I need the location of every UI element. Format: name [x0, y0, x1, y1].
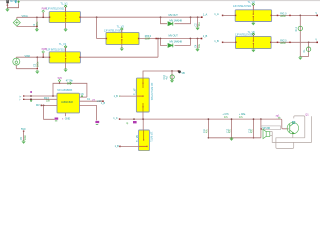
wire V2 top: [15, 56, 17, 59]
wire rail out U4: [272, 14, 317, 16]
pin end rail1: [201, 16, 203, 18]
filter block U1: [49, 12, 80, 23]
speaker SP1 symbol: [266, 132, 270, 137]
wire 1_A to U4: [223, 14, 236, 16]
resistor RX2 inline: [277, 42, 279, 44]
wire V1 top to rail: [16, 17, 18, 19]
svg-text:i-: i-: [20, 100, 21, 102]
IC U6 LM61: [57, 93, 80, 113]
wire between U7 and U8: [142, 112, 144, 119]
filter block U7 (vertical): [136, 78, 149, 112]
wire speaker lower stub: [270, 134, 272, 136]
node split D2: [160, 38, 162, 40]
pin end + node dot: [178, 70, 180, 72]
svg-text:MV OUT: MV OUT: [169, 35, 179, 38]
wire collector bottom return: [276, 138, 305, 149]
pin of J1: [7, 4, 9, 6]
IC left pin wires: [24, 95, 58, 97]
wire emitter stub: [292, 134, 294, 138]
svg-text:DL: DL: [303, 49, 306, 53]
ground under U2: [64, 70, 68, 73]
wire rail2 out U5: [271, 41, 317, 43]
wire U5 bottom gnd: [252, 48, 254, 51]
ground under C3: [35, 71, 39, 74]
svg-text:1_B: 1_B: [101, 102, 105, 105]
wire emitter net: [272, 116, 311, 142]
svg-text:10u: 10u: [198, 43, 201, 48]
wire to AGND flag: [44, 105, 55, 119]
wire D1 branch: [161, 17, 168, 24]
svg-text:RL1: RL1: [295, 27, 298, 32]
wire TL_V1 stub: [64, 5, 66, 7]
rail net VIN_A: [17, 16, 49, 18]
filter block U8 (vertical): [139, 130, 150, 151]
svg-text:220R: 220R: [145, 38, 151, 41]
IC right pin3 wire: [80, 104, 97, 106]
pin end rail2 right: [316, 42, 318, 44]
svg-text:TL_V8: TL_V8: [136, 135, 139, 142]
capacitor ladder C11: [207, 119, 209, 138]
svg-text:1JF INTELSYS01: 1JF INTELSYS01: [46, 8, 65, 11]
svg-text:100n: 100n: [24, 134, 27, 140]
junction U7U8: [142, 118, 144, 120]
svg-text:VB: VB: [181, 71, 185, 75]
ground under C9: [22, 141, 26, 144]
svg-text:VIN A: VIN A: [22, 14, 29, 18]
ground under U1: [64, 29, 68, 32]
ground under C4: [195, 49, 199, 52]
svg-text:MV 1N4148: MV 1N4148: [170, 40, 183, 43]
svg-text:220R: 220R: [280, 42, 286, 45]
svg-text:MV LM61BIM3: MV LM61BIM3: [57, 89, 72, 92]
svg-text:10u: 10u: [198, 22, 201, 27]
filter block U3: [106, 32, 139, 44]
svg-text:i+: i+: [20, 96, 22, 98]
capacitor C3: [36, 57, 38, 69]
svg-text:1JF INTELSYS01: 1JF INTELSYS01: [46, 48, 65, 51]
connector J1: [6, 0, 9, 3]
wire 5V rail: [53, 83, 87, 97]
testpoint label: [133, 118, 135, 120]
resistor RX1 inline: [277, 15, 279, 17]
svg-text:1_A: 1_A: [214, 12, 219, 16]
filter block U4: [235, 10, 271, 22]
diode DL vertical: [308, 42, 310, 56]
IC right pin1 wire: [80, 96, 87, 98]
svg-text:TL_V7: TL_V7: [134, 88, 137, 95]
junction rail2 down: [157, 38, 159, 40]
svg-text:1_A: 1_A: [203, 13, 208, 17]
ground under J1: [5, 9, 9, 12]
wire base path: [276, 119, 289, 129]
junction R load top: [299, 15, 301, 17]
diode D2: [168, 44, 172, 48]
wire U7 top: [143, 71, 178, 78]
speaker SP1 box label: [261, 126, 280, 130]
svg-text:TL_V3: TL_V3: [117, 25, 125, 29]
pin end rail2: [201, 38, 203, 40]
svg-text:1JF INTELSYS01: 1JF INTELSYS01: [104, 30, 123, 33]
transistor Q1: [287, 122, 298, 133]
ground ladder: [229, 138, 233, 141]
svg-text:1JF INTEL: 1JF INTEL: [150, 132, 153, 143]
ground right column: [298, 57, 302, 60]
top border line: [0, 0, 320, 1]
svg-text:1JF INTELSYS01: 1JF INTELSYS01: [235, 34, 254, 37]
wire branch down to U3: [96, 17, 98, 38]
svg-text:TL_V4: TL_V4: [248, 0, 256, 4]
svg-text:x: x: [62, 117, 64, 120]
capacitor C1: [36, 17, 38, 29]
capacitor C2 at rail1 end: [197, 16, 199, 18]
ground under U5: [251, 50, 255, 53]
wire collector top: [294, 116, 305, 138]
capacitor C4: [197, 38, 199, 40]
wire D2 branch: [160, 39, 167, 46]
wire U2 out to join rail2: [80, 56, 158, 58]
svg-text:GND: GND: [65, 117, 71, 120]
svg-text:xq1: xq1: [276, 114, 281, 118]
svg-text:1_B: 1_B: [203, 34, 208, 38]
svg-text:Q1: Q1: [305, 113, 309, 117]
wire speaker top terminal: [270, 131, 272, 133]
capacitor ladder C13: [253, 119, 255, 138]
svg-text:100n: 100n: [37, 61, 40, 67]
voltage source V2 (circle): [13, 58, 20, 65]
svg-text:C2: C2: [194, 23, 197, 27]
node split D1: [160, 16, 162, 18]
capacitor C9: [23, 131, 25, 141]
ground under U3: [120, 49, 124, 52]
wire DL to ground: [300, 56, 308, 58]
wire U7 left pin: [120, 95, 137, 97]
wire 1_B to U5: [223, 41, 236, 43]
voltage source V1 (diamond): [13, 19, 20, 26]
filter block U5: [236, 36, 272, 48]
wire ladder bottom: [208, 137, 261, 139]
wire U3 bottom gnd: [121, 45, 123, 49]
svg-text:LM61CIM3: LM61CIM3: [61, 101, 73, 104]
pin header mark: [15, 0, 16, 3]
svg-text:V: V: [315, 12, 317, 15]
IC right pin2 wire VTEMP: [80, 100, 103, 102]
node junction at C1 top: [36, 16, 38, 18]
junction to U3 branch: [96, 16, 98, 18]
svg-text:10k: 10k: [46, 100, 51, 103]
svg-text:1_C: 1_C: [113, 117, 118, 120]
wire bottom rail: [120, 118, 277, 120]
IC bottom pin: [65, 113, 67, 116]
svg-text:VIN2: VIN2: [25, 54, 31, 58]
ground under C2: [196, 28, 200, 31]
wire V1 bottom: [16, 25, 18, 27]
power flag +V: [17, 1, 20, 3]
svg-text:C9: C9: [20, 136, 23, 140]
svg-text:1_B: 1_B: [115, 145, 120, 148]
capacitor ladder C12: [231, 119, 233, 138]
left flags: [30, 91, 31, 93]
filter block U2: [49, 52, 80, 63]
svg-text:1_B: 1_B: [214, 39, 219, 43]
wire U2 bottom gnd: [65, 63, 67, 69]
svg-text:1JF INTELSYS01: 1JF INTELSYS01: [233, 5, 252, 8]
junction D load: [308, 41, 310, 43]
wire rail1: [80, 16, 201, 18]
ground under C1: [35, 29, 39, 32]
resistor RL1 vertical: [299, 15, 301, 57]
svg-text:1_B: 1_B: [114, 95, 119, 98]
svg-text:tp: tp: [126, 122, 129, 125]
junction C3 top: [36, 56, 38, 58]
wire J1 to +V flag: [6, 3, 8, 9]
svg-text:MV OUT: MV OUT: [169, 14, 179, 17]
svg-text:C6: C6: [81, 93, 85, 96]
svg-text:4u7: 4u7: [165, 75, 168, 79]
wire U1 bottom to ground: [65, 23, 67, 29]
svg-text:1JF INTELSYS01: 1JF INTELSYS01: [150, 83, 153, 101]
resistor RX3 inline: [155, 38, 157, 40]
ground under U4: [251, 23, 255, 26]
wire V2 bottom: [15, 65, 17, 69]
svg-text:C1: C1: [87, 98, 91, 101]
svg-text:MV 1N4148: MV 1N4148: [170, 20, 183, 23]
svg-text:C4: C4: [194, 44, 197, 48]
svg-text:V: V: [315, 39, 317, 42]
diode D1: [168, 22, 172, 26]
junction C10: [171, 70, 173, 72]
svg-text:47u: 47u: [239, 116, 243, 119]
capacitor C10: [171, 71, 173, 80]
pin end rail1 right: [316, 15, 318, 17]
wire U3 out rail2: [139, 38, 201, 40]
svg-text:47 39n: 47 39n: [66, 80, 74, 83]
svg-text:220R: 220R: [280, 15, 286, 18]
rail net VIN2: [16, 56, 49, 58]
svg-text:47u: 47u: [224, 116, 228, 119]
wire U4 bottom gnd: [252, 22, 254, 23]
capacitor C5 inline: [67, 82, 69, 84]
wire speaker feed: [260, 118, 262, 120]
svg-text:5V0: 5V0: [21, 127, 26, 131]
ground under C10: [170, 80, 174, 83]
svg-text:TL_V1: TL_V1: [60, 1, 68, 5]
